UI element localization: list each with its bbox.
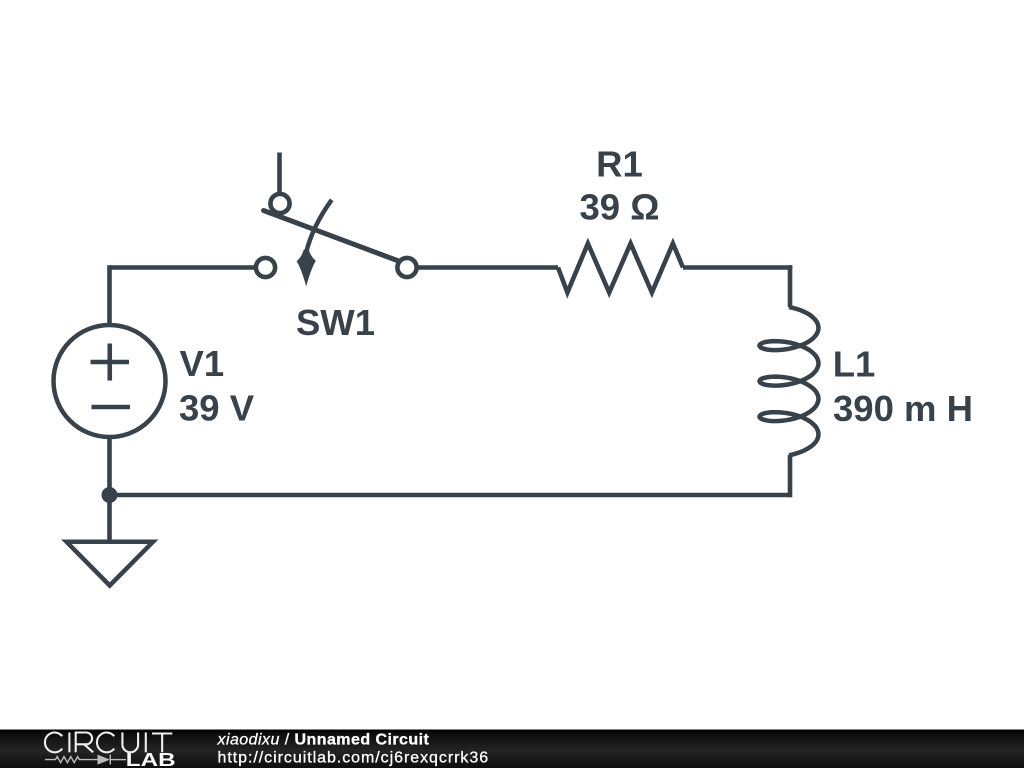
- switch SW1 left terminal circle: [256, 258, 275, 277]
- switch SW1 top terminal circle: [270, 194, 289, 213]
- footer bar: [0, 730, 1024, 768]
- svg-text:L1: L1: [833, 344, 876, 385]
- svg-text:R1: R1: [596, 144, 643, 185]
- wire inductor bottom stub: [788, 455, 793, 497]
- svg-text:39 Ω: 39 Ω: [579, 187, 659, 228]
- switch SW1 actuation arrow arc: [306, 200, 332, 254]
- wire switch top stub: [277, 153, 282, 194]
- wire V1 bottom to ground: [107, 437, 112, 542]
- svg-text:xiaodixu / Unnamed Circuit: xiaodixu / Unnamed Circuit: [217, 732, 430, 749]
- V1 plus sign: [91, 344, 130, 381]
- ground symbol: [67, 542, 154, 586]
- svg-text:V1: V1: [180, 343, 225, 384]
- CircuitLab logo word CIRCUIT: [45, 733, 172, 753]
- wire bottom horizontal: [107, 493, 790, 498]
- V1 minus sign: [92, 405, 131, 410]
- resistor R1: [558, 244, 683, 293]
- wire switch right to resistor: [419, 265, 559, 270]
- svg-text:http://circuitlab.com/cj6rexqc: http://circuitlab.com/cj6rexqcrrk36: [218, 750, 490, 767]
- inductor L1: [760, 307, 819, 455]
- wire left vertical: [107, 265, 112, 325]
- switch SW1 arrow head: [297, 250, 316, 287]
- wire resistor right to corner: [683, 265, 792, 270]
- svg-text:390 m H: 390 m H: [833, 388, 973, 429]
- switch SW1 lever: [264, 211, 405, 264]
- wire inductor top stub: [788, 265, 793, 307]
- junction node dot: [102, 487, 118, 503]
- switch SW1 right terminal circle: [397, 258, 416, 277]
- wire top-left horizontal: [110, 265, 255, 270]
- svg-text:SW1: SW1: [296, 302, 375, 343]
- CircuitLab logo mini resistor-diode schematic: [45, 755, 126, 765]
- logo diode triangle: [98, 755, 111, 765]
- voltage source V1: [54, 325, 166, 437]
- svg-text:LAB: LAB: [126, 749, 176, 768]
- svg-text:39 V: 39 V: [179, 388, 255, 429]
